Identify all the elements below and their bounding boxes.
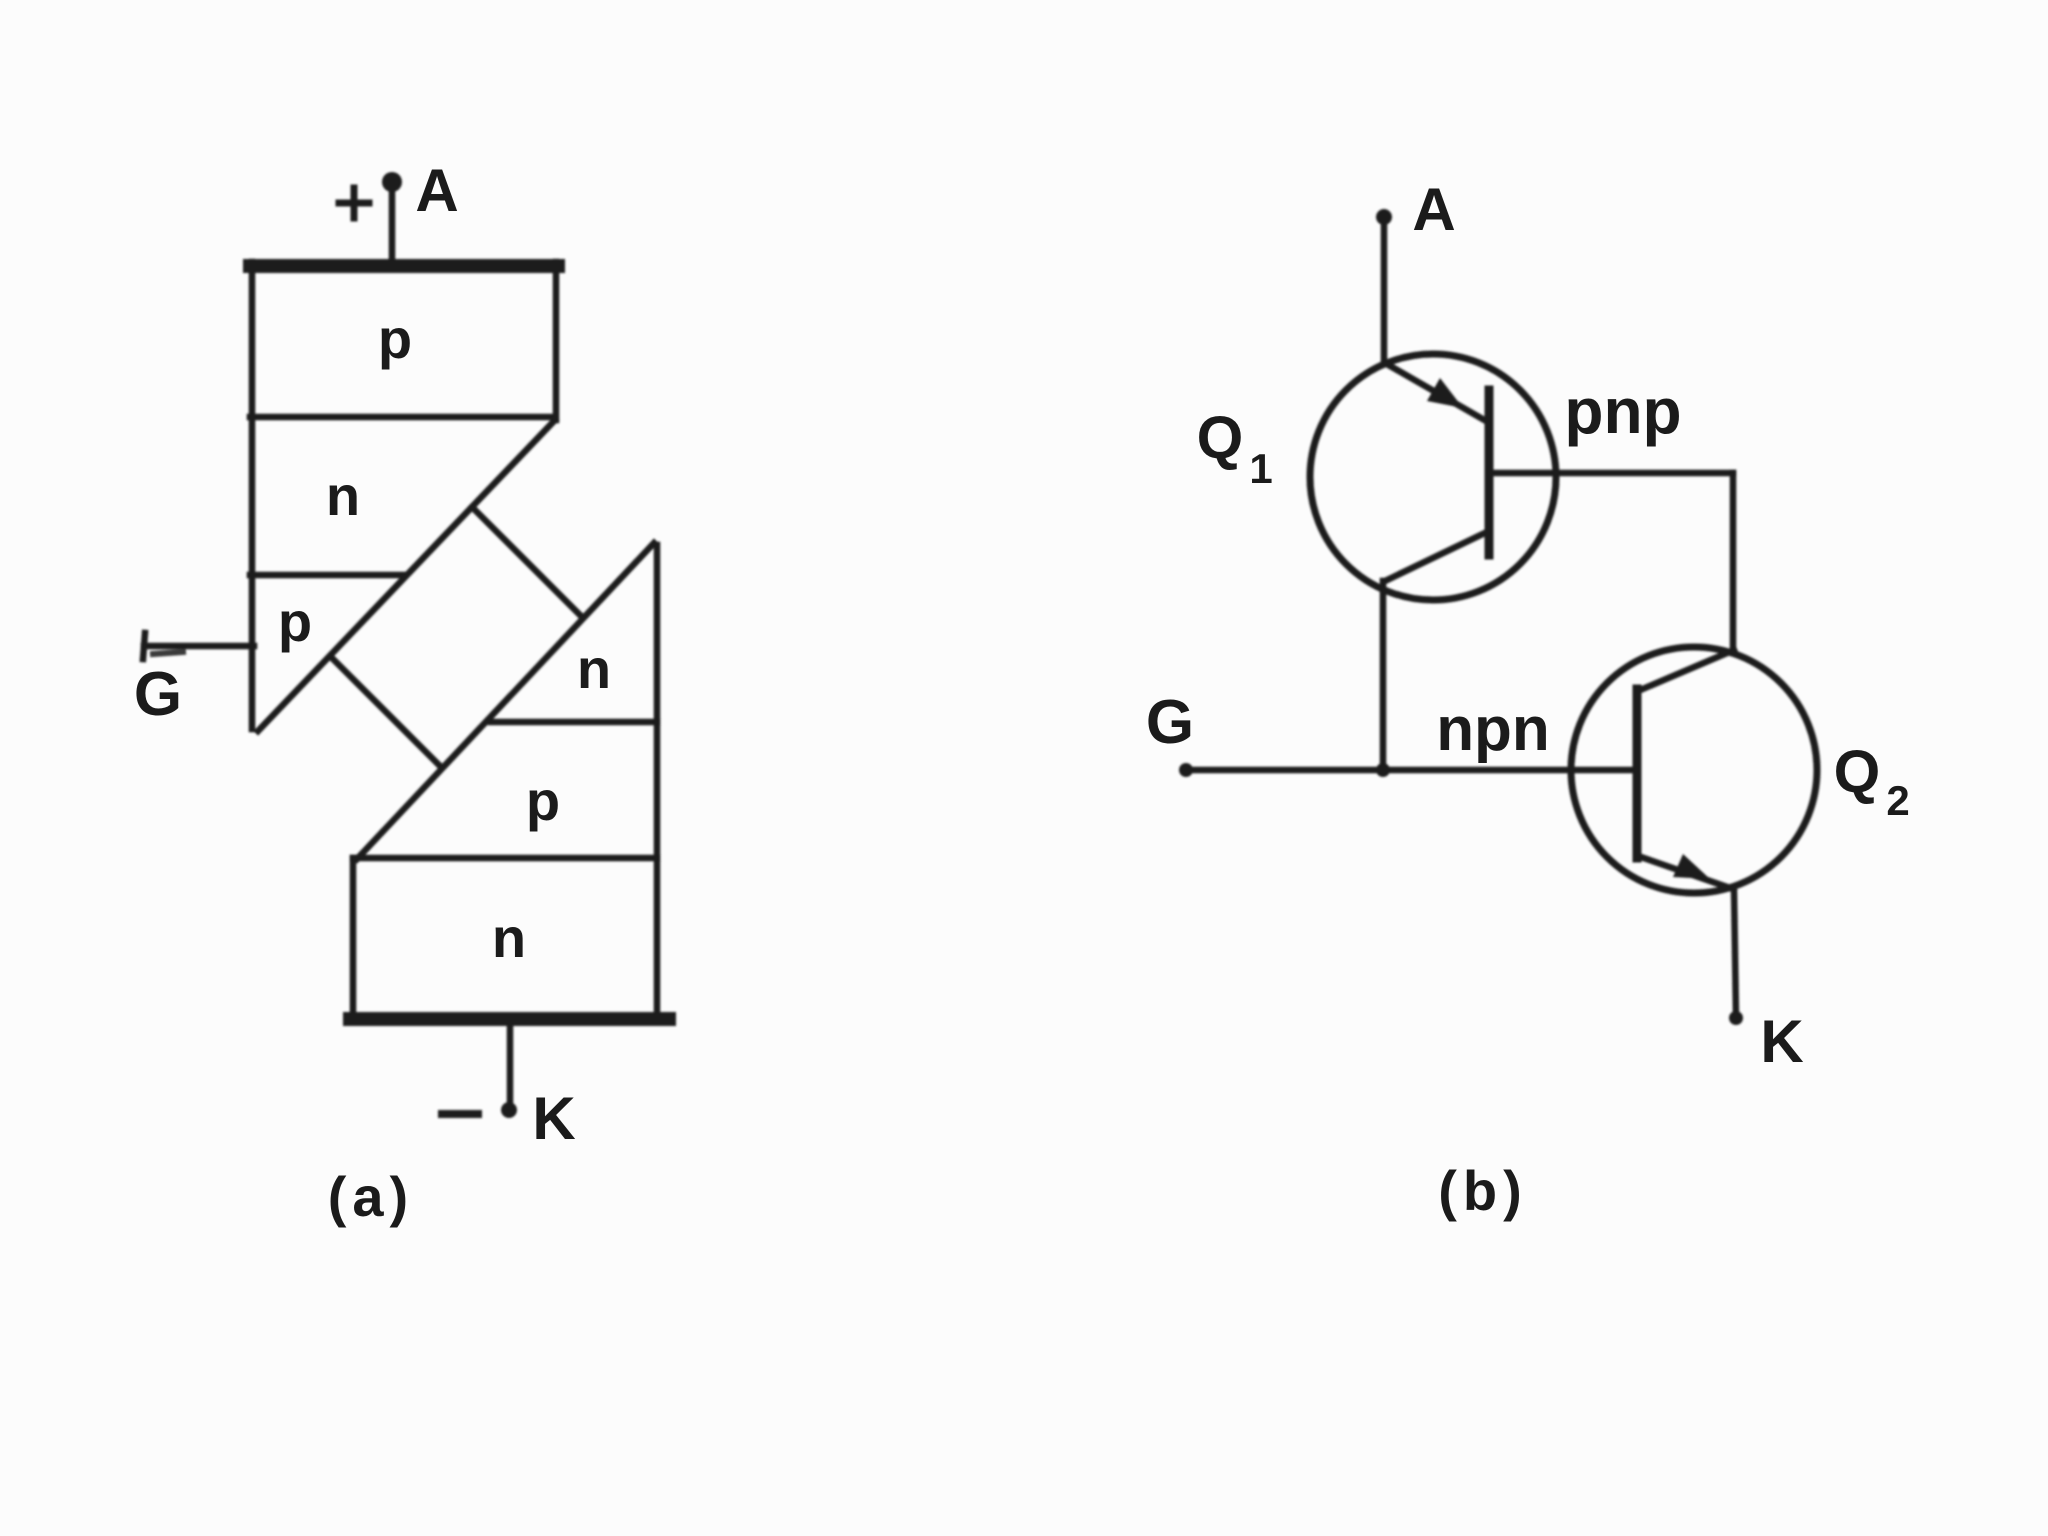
gate wire	[1186, 767, 1637, 774]
svg-text:A: A	[415, 157, 458, 224]
Q1 base lead wire	[1489, 470, 1733, 477]
Q1 collector wire down to gate node	[1380, 581, 1387, 770]
node A dot	[1376, 209, 1392, 225]
junction node dot	[1376, 763, 1390, 777]
n/p junction line (right)	[491, 719, 657, 726]
gate lead ink mark	[153, 652, 183, 654]
Q1 emitter arrowhead	[1427, 378, 1463, 408]
node A terminal lead	[389, 186, 396, 262]
svg-text:1: 1	[1249, 445, 1272, 492]
svg-text:Q: Q	[1197, 404, 1244, 471]
anode electrode thick bar	[250, 259, 558, 273]
p/n junction line	[250, 414, 554, 421]
wire connector lower diagonal	[330, 656, 442, 768]
n/p junction line (gate side)	[250, 572, 405, 579]
minus sign	[442, 1110, 478, 1118]
diagonal cut upper (hypotenuse of pnp)	[258, 420, 555, 731]
cathode wire	[1734, 889, 1736, 1016]
svg-text:(a): (a)	[328, 1165, 414, 1228]
p region right edge wire	[553, 262, 560, 420]
svg-text:K: K	[1760, 1008, 1803, 1075]
Q1 emitter stroke	[1385, 363, 1486, 421]
Q1 base bar	[1485, 390, 1494, 555]
Q2 emitter stroke	[1638, 856, 1733, 889]
svg-text:n: n	[492, 906, 526, 969]
node A dot	[382, 172, 402, 192]
svg-text:p: p	[526, 769, 560, 832]
wire connector upper diagonal	[472, 507, 583, 618]
svg-text:(b): (b)	[1438, 1159, 1528, 1222]
gate lead wire	[144, 643, 254, 650]
wire base Q1 to collector Q2	[1730, 473, 1737, 651]
node K dot	[1729, 1011, 1743, 1025]
diagonal cut lower (hypotenuse of npn)	[357, 543, 654, 859]
Q2 emitter arrowhead	[1673, 854, 1710, 879]
svg-text:A: A	[1412, 176, 1455, 243]
Q1 collector stroke	[1385, 532, 1487, 581]
Q2 collector stroke	[1638, 650, 1734, 691]
svg-text:n: n	[326, 464, 360, 527]
svg-text:p: p	[278, 590, 312, 653]
svg-text:Q: Q	[1834, 738, 1881, 805]
gate terminal dot	[1179, 763, 1193, 777]
npn right edge wire	[654, 545, 661, 1018]
svg-text:G: G	[134, 660, 182, 729]
svg-text:G: G	[1146, 688, 1194, 757]
p/n junction line (right)	[353, 855, 657, 862]
svg-text:pnp: pnp	[1564, 375, 1681, 447]
transistor Q1 circle	[1310, 354, 1556, 600]
transistor Q2 circle	[1571, 647, 1817, 893]
bottom n region left edge	[350, 858, 357, 1016]
anode wire	[1381, 220, 1388, 362]
cathode electrode thick bar	[350, 1012, 669, 1026]
Q2 base bar	[1633, 689, 1642, 858]
svg-text:K: K	[532, 1085, 575, 1152]
node K dot	[501, 1102, 517, 1118]
left structure left edge wire	[249, 262, 256, 729]
node K terminal lead	[507, 1026, 514, 1110]
svg-text:n: n	[577, 637, 611, 700]
gate lead end tick	[143, 633, 145, 659]
svg-text:2: 2	[1886, 777, 1909, 824]
svg-text:npn: npn	[1436, 695, 1550, 764]
plus sign	[339, 188, 369, 218]
svg-text:p: p	[378, 307, 412, 370]
